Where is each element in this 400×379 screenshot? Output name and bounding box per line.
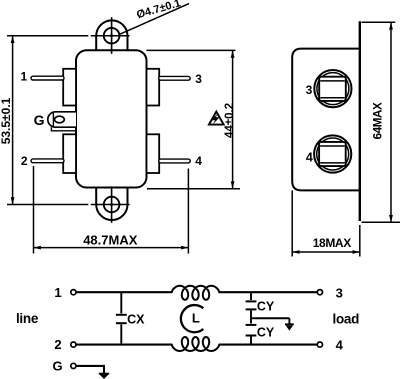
- capacitor CX stem top: [120, 292, 122, 313]
- top mounting hole: [104, 28, 120, 44]
- pin housing box 4: [147, 134, 160, 173]
- top hole centerline vertical: [111, 17, 113, 54]
- svg-text:4: 4: [336, 337, 344, 352]
- dimension 64MAX extension bottom: [362, 221, 400, 223]
- terminal 2: [71, 342, 76, 347]
- dimension 48.7MAX extension left: [33, 166, 35, 254]
- svg-text:2: 2: [54, 337, 61, 352]
- choke core circle L: [181, 305, 203, 332]
- dimension 48.7MAX extension right: [187, 169, 189, 254]
- inductor L bottom winding: [172, 337, 220, 351]
- dimension 18MAX extension left: [291, 190, 293, 256]
- bottom hole centerline vertical: [111, 186, 113, 223]
- dimension 18MAX line: [292, 251, 360, 253]
- svg-text:3: 3: [336, 286, 343, 301]
- terminal G: [71, 363, 76, 368]
- svg-text:2: 2: [21, 154, 28, 168]
- svg-text:CY: CY: [257, 325, 275, 339]
- svg-text:1: 1: [20, 70, 27, 84]
- svg-text:4: 4: [306, 151, 313, 165]
- svg-text:4: 4: [195, 154, 202, 168]
- capacitor CY1 stem bottom: [250, 310, 252, 318]
- dimension 53.5±0.1 line: [12, 36, 14, 205]
- socket 3 inner lines: [320, 80, 345, 82]
- svg-text:44±0.2: 44±0.2: [224, 103, 236, 138]
- ground tab base plate: [51, 127, 76, 131]
- ground tab flange line: [52, 112, 54, 127]
- socket 4 square: [319, 142, 346, 166]
- capacitor CY2 plates: [246, 324, 257, 326]
- socket 4 inner lines: [320, 145, 345, 147]
- bottom hole centerline extension: [7, 204, 88, 206]
- socket 3 inner circle: [317, 73, 349, 105]
- svg-text:G: G: [34, 112, 45, 128]
- terminal 4: [317, 342, 322, 347]
- socket 4 outer circle: [314, 135, 351, 172]
- inductor L top winding: [172, 286, 220, 300]
- socket 3 square: [319, 77, 346, 101]
- dimension 48.7MAX line: [34, 247, 189, 249]
- ground tap wire: [251, 317, 289, 319]
- dimension 44±0.2 extension top: [147, 49, 236, 51]
- svg-text:48.7MAX: 48.7MAX: [83, 233, 138, 248]
- terminal 3: [317, 290, 322, 295]
- svg-text:53.5±0.1: 53.5±0.1: [0, 97, 13, 144]
- dimension 64MAX line: [390, 22, 392, 222]
- svg-text:load: load: [333, 312, 360, 327]
- ground tab G: [48, 112, 76, 127]
- dimension 18MAX extension right: [359, 225, 361, 257]
- capacitor CY1 stem top: [250, 292, 252, 300]
- top hole centerline horizontal: [91, 35, 130, 37]
- warning triangle symbol: [209, 112, 224, 125]
- wire line1 left: [76, 291, 172, 293]
- dimension 64MAX extension top: [362, 21, 396, 23]
- ground symbol right: [285, 323, 294, 325]
- bottom hole centerline horizontal: [91, 204, 130, 206]
- bottom mounting tab: [96, 188, 127, 221]
- svg-text:CX: CX: [127, 312, 145, 326]
- svg-text:3: 3: [306, 83, 313, 97]
- svg-text:line: line: [16, 311, 39, 326]
- wire line2 right: [219, 344, 317, 346]
- capacitor CY2 stem bottom: [250, 337, 252, 345]
- wire line2 left: [76, 344, 172, 346]
- capacitor CX plates: [116, 314, 127, 316]
- capacitor CY1 plates: [246, 300, 257, 302]
- svg-text:3: 3: [195, 72, 202, 86]
- bottom mounting hole: [104, 197, 120, 213]
- dimension 44±0.2 line: [232, 50, 234, 188]
- socket 4 inner circle: [317, 138, 349, 170]
- top hole centerline extension to dimension: [7, 35, 88, 37]
- pin lead 1: [31, 76, 64, 80]
- ground symbol G: [99, 373, 109, 375]
- svg-text:18MAX: 18MAX: [313, 236, 351, 250]
- mounting flange edge: [359, 21, 361, 221]
- capacitor CX stem bottom: [120, 324, 122, 344]
- pin housing box 1: [63, 69, 76, 106]
- pin housing box 3: [147, 69, 160, 106]
- leader line dia 4.7: [119, 4, 189, 35]
- pin lead 4: [159, 159, 191, 163]
- ground tab oval hole: [55, 116, 65, 123]
- svg-text:64MAX: 64MAX: [372, 102, 385, 139]
- terminal 1: [71, 290, 76, 295]
- wire G: [76, 365, 104, 367]
- svg-text:CY: CY: [257, 299, 275, 313]
- pin lead 2: [31, 159, 64, 163]
- pin lead 3: [159, 76, 191, 80]
- svg-text:1: 1: [54, 285, 61, 300]
- side body outline: [292, 49, 360, 191]
- capacitor CY2 stem top: [250, 318, 252, 323]
- dimension 44±0.2 extension bottom: [147, 188, 240, 190]
- pin housing box 2: [63, 134, 76, 173]
- socket 3 outer circle: [314, 70, 351, 107]
- wire line1 right: [219, 291, 317, 293]
- svg-text:L: L: [192, 311, 200, 326]
- svg-text:G: G: [53, 359, 63, 374]
- top mounting tab: [96, 20, 127, 50]
- filter body outline: [76, 50, 147, 187]
